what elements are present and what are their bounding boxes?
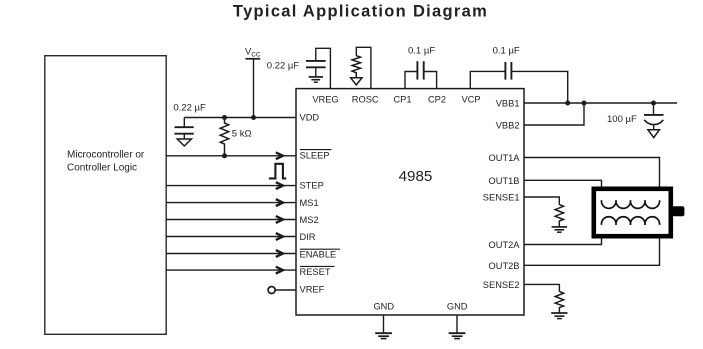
svg-text:5 kΩ: 5 kΩ <box>232 129 252 140</box>
svg-text:0.1 µF: 0.1 µF <box>408 45 435 56</box>
svg-text:GND: GND <box>447 301 468 311</box>
svg-text:MS1: MS1 <box>300 198 319 208</box>
svg-text:Typical Application Diagram: Typical Application Diagram <box>233 3 488 21</box>
svg-text:CP1: CP1 <box>393 95 411 105</box>
svg-text:VBB1: VBB1 <box>496 99 520 109</box>
svg-text:SENSE2: SENSE2 <box>483 280 520 290</box>
svg-text:GND: GND <box>373 301 394 311</box>
svg-text:4985: 4985 <box>399 168 433 185</box>
svg-text:SENSE1: SENSE1 <box>483 193 520 203</box>
svg-text:0.22 µF: 0.22 µF <box>267 60 300 71</box>
svg-text:SLEEP: SLEEP <box>300 151 330 161</box>
svg-text:DIR: DIR <box>300 232 316 242</box>
svg-text:RESET: RESET <box>300 267 331 277</box>
svg-text:OUT2A: OUT2A <box>489 240 521 250</box>
svg-text:0.1 µF: 0.1 µF <box>493 45 520 56</box>
svg-text:OUT1A: OUT1A <box>489 153 521 163</box>
svg-text:VREG: VREG <box>312 95 338 105</box>
svg-text:Microcontroller or: Microcontroller or <box>67 150 145 161</box>
svg-text:ENABLE: ENABLE <box>300 250 337 260</box>
svg-text:OUT1B: OUT1B <box>489 176 520 186</box>
svg-text:CP2: CP2 <box>428 95 446 105</box>
svg-text:0.22 µF: 0.22 µF <box>173 102 206 113</box>
svg-text:Controller Logic: Controller Logic <box>67 163 137 174</box>
svg-text:VREF: VREF <box>300 285 325 295</box>
svg-text:MS2: MS2 <box>300 215 319 225</box>
svg-text:OUT2B: OUT2B <box>489 261 520 271</box>
svg-text:VDD: VDD <box>300 113 320 123</box>
svg-text:100 µF: 100 µF <box>607 114 637 125</box>
svg-text:ROSC: ROSC <box>352 95 379 105</box>
svg-text:VBB2: VBB2 <box>496 121 520 131</box>
svg-text:STEP: STEP <box>300 181 324 191</box>
svg-text:VCP: VCP <box>461 95 480 105</box>
